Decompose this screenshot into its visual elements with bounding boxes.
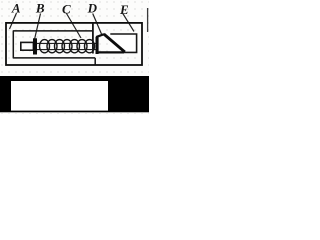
spring coil C: [40, 40, 95, 53]
chamber step wall: [94, 58, 96, 65]
wedge hypotenuse D: [104, 34, 125, 52]
page edge artifact right: [147, 8, 149, 32]
redaction window white: [11, 81, 108, 111]
svg-text:D: D: [87, 0, 98, 15]
divider wall: [92, 24, 94, 54]
rod B solid left section: [21, 42, 34, 50]
redaction bar black: [0, 76, 149, 112]
leader E: [123, 13, 135, 32]
inner chamber wall: [13, 31, 95, 58]
housing outer rectangle A: [6, 23, 142, 65]
paper background: [0, 0, 149, 114]
leader B: [35, 14, 41, 40]
svg-text:B: B: [35, 0, 45, 15]
wedge top edge D: [96, 34, 104, 37]
wedge plate D: [96, 37, 99, 54]
leader A: [10, 13, 17, 29]
leader C: [67, 14, 82, 39]
block E: [110, 34, 137, 52]
rod guide top line: [34, 42, 96, 44]
piston flange B: [33, 38, 37, 54]
leader D: [93, 14, 102, 35]
rod guide bottom line: [34, 49, 96, 51]
wedge base D: [96, 51, 125, 53]
